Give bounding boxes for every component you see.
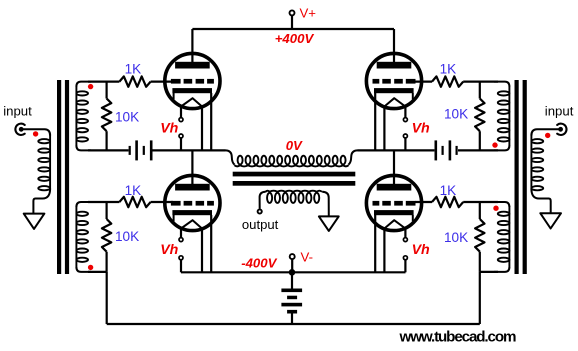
ground (left input) (24, 214, 45, 229)
wire: R4 top lead (105, 202, 107, 219)
wire: left return drop (106, 272, 108, 324)
node: phase dot lower-left (88, 265, 93, 270)
heater terminals V3 (179, 238, 183, 242)
resistor R5 1K (432, 76, 463, 86)
wire: input to T3 primary (531, 129, 559, 135)
wire: R7 to T3 sec (463, 201, 498, 203)
wire: R2 top lead (105, 82, 107, 99)
svg-text:Vh: Vh (160, 121, 178, 137)
input jack J1 (15, 124, 24, 135)
transformer T1 core (57, 80, 61, 274)
wire: V3 plate lead (191, 150, 193, 184)
wire: V3 heater lower lead (180, 260, 182, 272)
wire: V1 plate lead (191, 29, 193, 62)
wire: V4 grid to R7 (415, 201, 432, 203)
resistor R7 1K (432, 197, 463, 207)
wire: B1 to bus (153, 149, 226, 151)
wire: T1 sec top to R1 (88, 80, 119, 82)
node: phase dot upper-left (88, 84, 93, 89)
wire: battery B3 top lead (291, 272, 293, 288)
svg-text:10K: 10K (444, 230, 468, 245)
node: input phase dot (left) (33, 131, 38, 136)
T3 secondary winding (lower) (494, 202, 509, 207)
wire: V3 cathode lead (210, 215, 212, 272)
wire: R6 bottom lead (479, 131, 481, 150)
heater terminals V1 (179, 118, 183, 122)
svg-text:0V: 0V (286, 138, 303, 153)
wire: V1 cathode lead (210, 93, 212, 150)
wire: bus to B2 (358, 149, 435, 151)
wire: R8 bottom lead (479, 252, 481, 272)
svg-text:+400V: +400V (275, 31, 315, 46)
svg-text:input: input (3, 103, 32, 118)
wire: R1 to grid V1 (151, 80, 173, 82)
resistor R8 10K (475, 219, 484, 252)
tube V4 (lower right) (366, 175, 421, 230)
svg-text:Vh: Vh (160, 242, 178, 258)
node: input phase dot (right) (545, 133, 550, 138)
T3 primary winding (530, 135, 532, 191)
T2 secondary winding (260, 192, 266, 209)
svg-text:www.tubecad.com: www.tubecad.com (399, 329, 517, 346)
svg-text:Vh: Vh (412, 121, 430, 137)
wire: R5 to T3 sec top (463, 80, 498, 82)
wire: V4 heater lower lead (404, 260, 406, 272)
input jack J2 (557, 124, 566, 135)
svg-text:V-: V- (301, 250, 313, 265)
wire: right cell bottom (458, 149, 498, 151)
wire: R3 to grid V3 (151, 201, 173, 203)
node: phase dot upper-right (492, 142, 497, 147)
wire: R4 bottom lead (105, 252, 107, 272)
svg-text:1K: 1K (125, 183, 142, 198)
wire: V3 filament leg (201, 228, 203, 272)
terminal V+ (290, 10, 295, 15)
svg-text:1K: 1K (125, 61, 142, 76)
T2 core (233, 172, 356, 177)
wire: V2 heater upper lead (404, 106, 406, 117)
battery B1 (129, 146, 131, 155)
node: V- junction (289, 269, 296, 276)
wire: V2 filament leg (383, 106, 385, 150)
wire: V1 filament leg (201, 106, 203, 150)
wire: V2 heater lower lead (404, 138, 406, 150)
wire: T1 primary to ground (33, 189, 50, 214)
tube V1 (upper left) (165, 53, 220, 108)
svg-text:1K: 1K (440, 183, 457, 198)
battery B3 (281, 289, 302, 293)
T1 primary winding (49, 135, 51, 191)
wire: V2 grid to R5 (415, 80, 432, 82)
svg-text:1K: 1K (440, 61, 457, 76)
wire: V1 heater lower lead (180, 138, 182, 150)
battery B2 (435, 140, 438, 160)
T2 primary winding (226, 150, 235, 164)
ground (right input) (540, 213, 561, 228)
wire: lower-right cell bottom (480, 271, 498, 273)
wire: V4 filament leg (383, 228, 385, 272)
wire: V3 heater upper lead (180, 228, 182, 237)
svg-text:10K: 10K (444, 107, 468, 122)
wire: input to T1 primary (23, 129, 51, 135)
wire: battery B3 bottom lead (291, 314, 293, 325)
wire: V2 plate lead (393, 29, 395, 62)
resistor R6 10K (475, 99, 484, 132)
terminal V- (290, 254, 295, 259)
wire: V+ lead (291, 16, 293, 30)
wire: V1 heater upper lead (180, 106, 182, 117)
wire: V2 cathode lead (374, 93, 376, 150)
resistor R2 10K (102, 99, 111, 132)
T3 secondary winding (upper) (494, 82, 509, 87)
resistor R3 1K (119, 197, 150, 207)
resistor R1 1K (119, 76, 150, 86)
wire: T3 primary to ground (531, 189, 550, 214)
wire: R2 bottom lead (105, 131, 107, 150)
wire: V- lead (291, 259, 293, 272)
svg-text:-400V: -400V (241, 256, 277, 271)
svg-text:output: output (242, 217, 279, 232)
heater terminals V2 (403, 118, 407, 122)
wire: bottom return bus (107, 323, 480, 325)
wire: R8 top lead (479, 202, 481, 219)
ground (output) (319, 216, 339, 231)
svg-text:10K: 10K (115, 229, 139, 244)
node: phase dot lower-right (493, 206, 498, 211)
T1 secondary winding (upper) (76, 82, 91, 87)
wire: V3 grid to R3 (88, 201, 119, 203)
T1 secondary winding (lower) (76, 202, 91, 207)
tube V3 (lower left) (165, 175, 220, 230)
tube V2 (upper right) (366, 53, 421, 108)
wire: V4 plate lead (393, 150, 395, 184)
wire: V4 cathode lead (374, 215, 376, 272)
svg-text:V+: V+ (300, 5, 317, 20)
output jack (258, 209, 262, 213)
wire: right return drop (479, 272, 481, 324)
svg-text:10K: 10K (115, 109, 139, 124)
wire: R6 top lead (479, 82, 481, 99)
wire: left cell bottom (88, 149, 129, 151)
wire: -400V rail (181, 271, 406, 273)
wire: lower-left cell bottom (88, 271, 107, 273)
wire: +400V top rail (192, 28, 394, 30)
heater terminals V4 (403, 238, 407, 242)
resistor R4 10K (102, 219, 111, 252)
svg-text:Vh: Vh (412, 242, 430, 258)
wire: V4 heater upper lead (404, 228, 406, 237)
transformer T3 core (515, 80, 519, 274)
svg-text:input: input (545, 103, 574, 118)
